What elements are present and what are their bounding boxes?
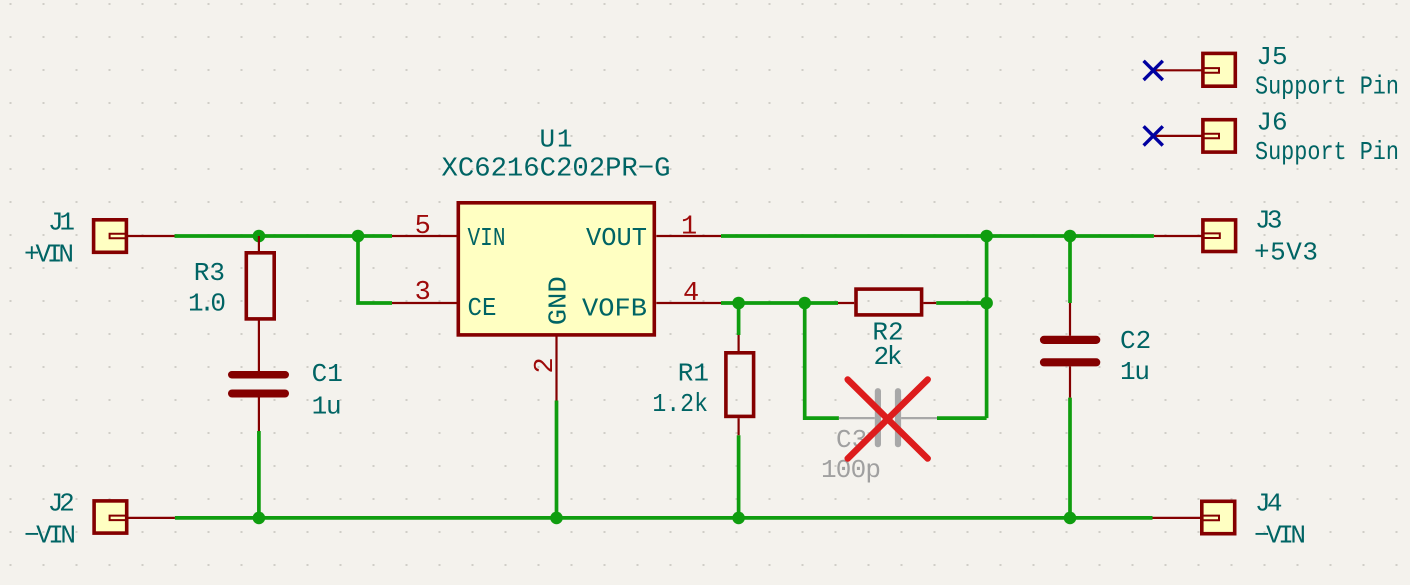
- svg-text:J6: J6: [1256, 108, 1287, 138]
- connector J2: [94, 501, 175, 533]
- capacitor C1: [228, 371, 289, 431]
- junction top R2 vertical: [980, 230, 993, 243]
- U1 pin 2 GND: [555, 335, 557, 401]
- wire C3 left branch: [805, 303, 839, 418]
- svg-text:1: 1: [681, 213, 697, 243]
- wire R2 right vertical: [985, 236, 989, 418]
- svg-text:1u: 1u: [312, 392, 342, 422]
- svg-text:R3: R3: [194, 258, 225, 288]
- junction top R3: [253, 230, 266, 243]
- no-connect X J6: [1144, 126, 1163, 145]
- svg-text:XC6216C202PR−G: XC6216C202PR−G: [442, 155, 671, 185]
- svg-text:−VIN: −VIN: [24, 521, 76, 551]
- capacitor C3 (DNP, gray): [839, 388, 937, 447]
- junction top C2: [1064, 230, 1077, 243]
- junction bottom C1: [253, 512, 266, 525]
- wire top bus J1 to pin5: [175, 234, 393, 238]
- U1 pin 5 VIN: [392, 235, 457, 237]
- svg-text:Support Pin: Support Pin: [1255, 72, 1399, 102]
- connector J5: [1153, 53, 1235, 86]
- connector J4: [1153, 501, 1235, 533]
- junction VOFB R1: [732, 297, 745, 310]
- connector J3: [1154, 220, 1236, 252]
- svg-text:1.0: 1.0: [188, 289, 226, 319]
- svg-text:J1: J1: [48, 208, 75, 238]
- svg-text:C2: C2: [1120, 326, 1151, 356]
- svg-text:VIN: VIN: [468, 223, 506, 253]
- wire VOFB to R2: [721, 301, 838, 305]
- svg-text:GND: GND: [544, 276, 574, 325]
- junction bottom R1: [732, 512, 745, 525]
- junction R2 right: [980, 297, 993, 310]
- svg-text:1.2k: 1.2k: [652, 389, 708, 419]
- svg-text:+VIN: +VIN: [24, 240, 74, 270]
- resistor R1: [726, 335, 754, 435]
- no-connect X J5: [1144, 61, 1163, 80]
- svg-text:J4: J4: [1255, 489, 1283, 519]
- svg-text:2: 2: [531, 357, 561, 373]
- resistor R3: [246, 236, 274, 371]
- svg-text:5: 5: [415, 212, 431, 242]
- connector J6: [1153, 120, 1235, 152]
- wire C2 bottom: [1068, 398, 1072, 518]
- junction bottom GND: [550, 512, 563, 525]
- wire top bus VOUT to J3: [721, 234, 1154, 238]
- svg-text:C1: C1: [312, 359, 343, 389]
- U1 pin 3 CE: [392, 302, 457, 304]
- svg-text:J2: J2: [48, 489, 75, 519]
- wire C3 right to vertical: [937, 416, 987, 420]
- svg-text:R1: R1: [678, 359, 709, 389]
- DNP cross C3: [848, 380, 928, 459]
- wire CE branch vertical: [358, 236, 392, 303]
- svg-text:VOFB: VOFB: [582, 294, 647, 324]
- svg-text:VOUT: VOUT: [586, 223, 647, 253]
- svg-text:+5V3: +5V3: [1254, 238, 1318, 268]
- wire R2 right to junction: [936, 301, 986, 305]
- svg-text:CE: CE: [468, 293, 497, 323]
- svg-text:−VIN: −VIN: [1254, 521, 1306, 551]
- U1 pin 1 VOUT: [656, 235, 721, 237]
- wire C1 bottom: [257, 431, 261, 518]
- junction bottom C2: [1064, 512, 1077, 525]
- wire bottom bus: [175, 516, 1153, 520]
- wire R1 top: [737, 303, 741, 335]
- svg-text:U1: U1: [540, 125, 573, 155]
- junction VOFB C3: [798, 297, 811, 310]
- junction top CE: [352, 230, 365, 243]
- wire C2 top: [1068, 236, 1072, 303]
- op-amp U1 body: [458, 203, 654, 335]
- svg-text:4: 4: [683, 279, 699, 309]
- svg-text:1u: 1u: [1120, 357, 1150, 387]
- svg-text:3: 3: [415, 278, 431, 308]
- svg-text:J5: J5: [1256, 42, 1287, 72]
- wire R1 bottom: [737, 435, 741, 518]
- connector J1: [94, 220, 175, 253]
- wire GND bottom: [555, 401, 559, 518]
- svg-text:2k: 2k: [874, 342, 903, 372]
- svg-text:Support Pin: Support Pin: [1255, 137, 1399, 167]
- capacitor C2: [1040, 303, 1100, 398]
- svg-text:J3: J3: [1255, 206, 1283, 236]
- U1 pin 4 VOFB: [656, 302, 721, 304]
- resistor R2: [838, 289, 936, 315]
